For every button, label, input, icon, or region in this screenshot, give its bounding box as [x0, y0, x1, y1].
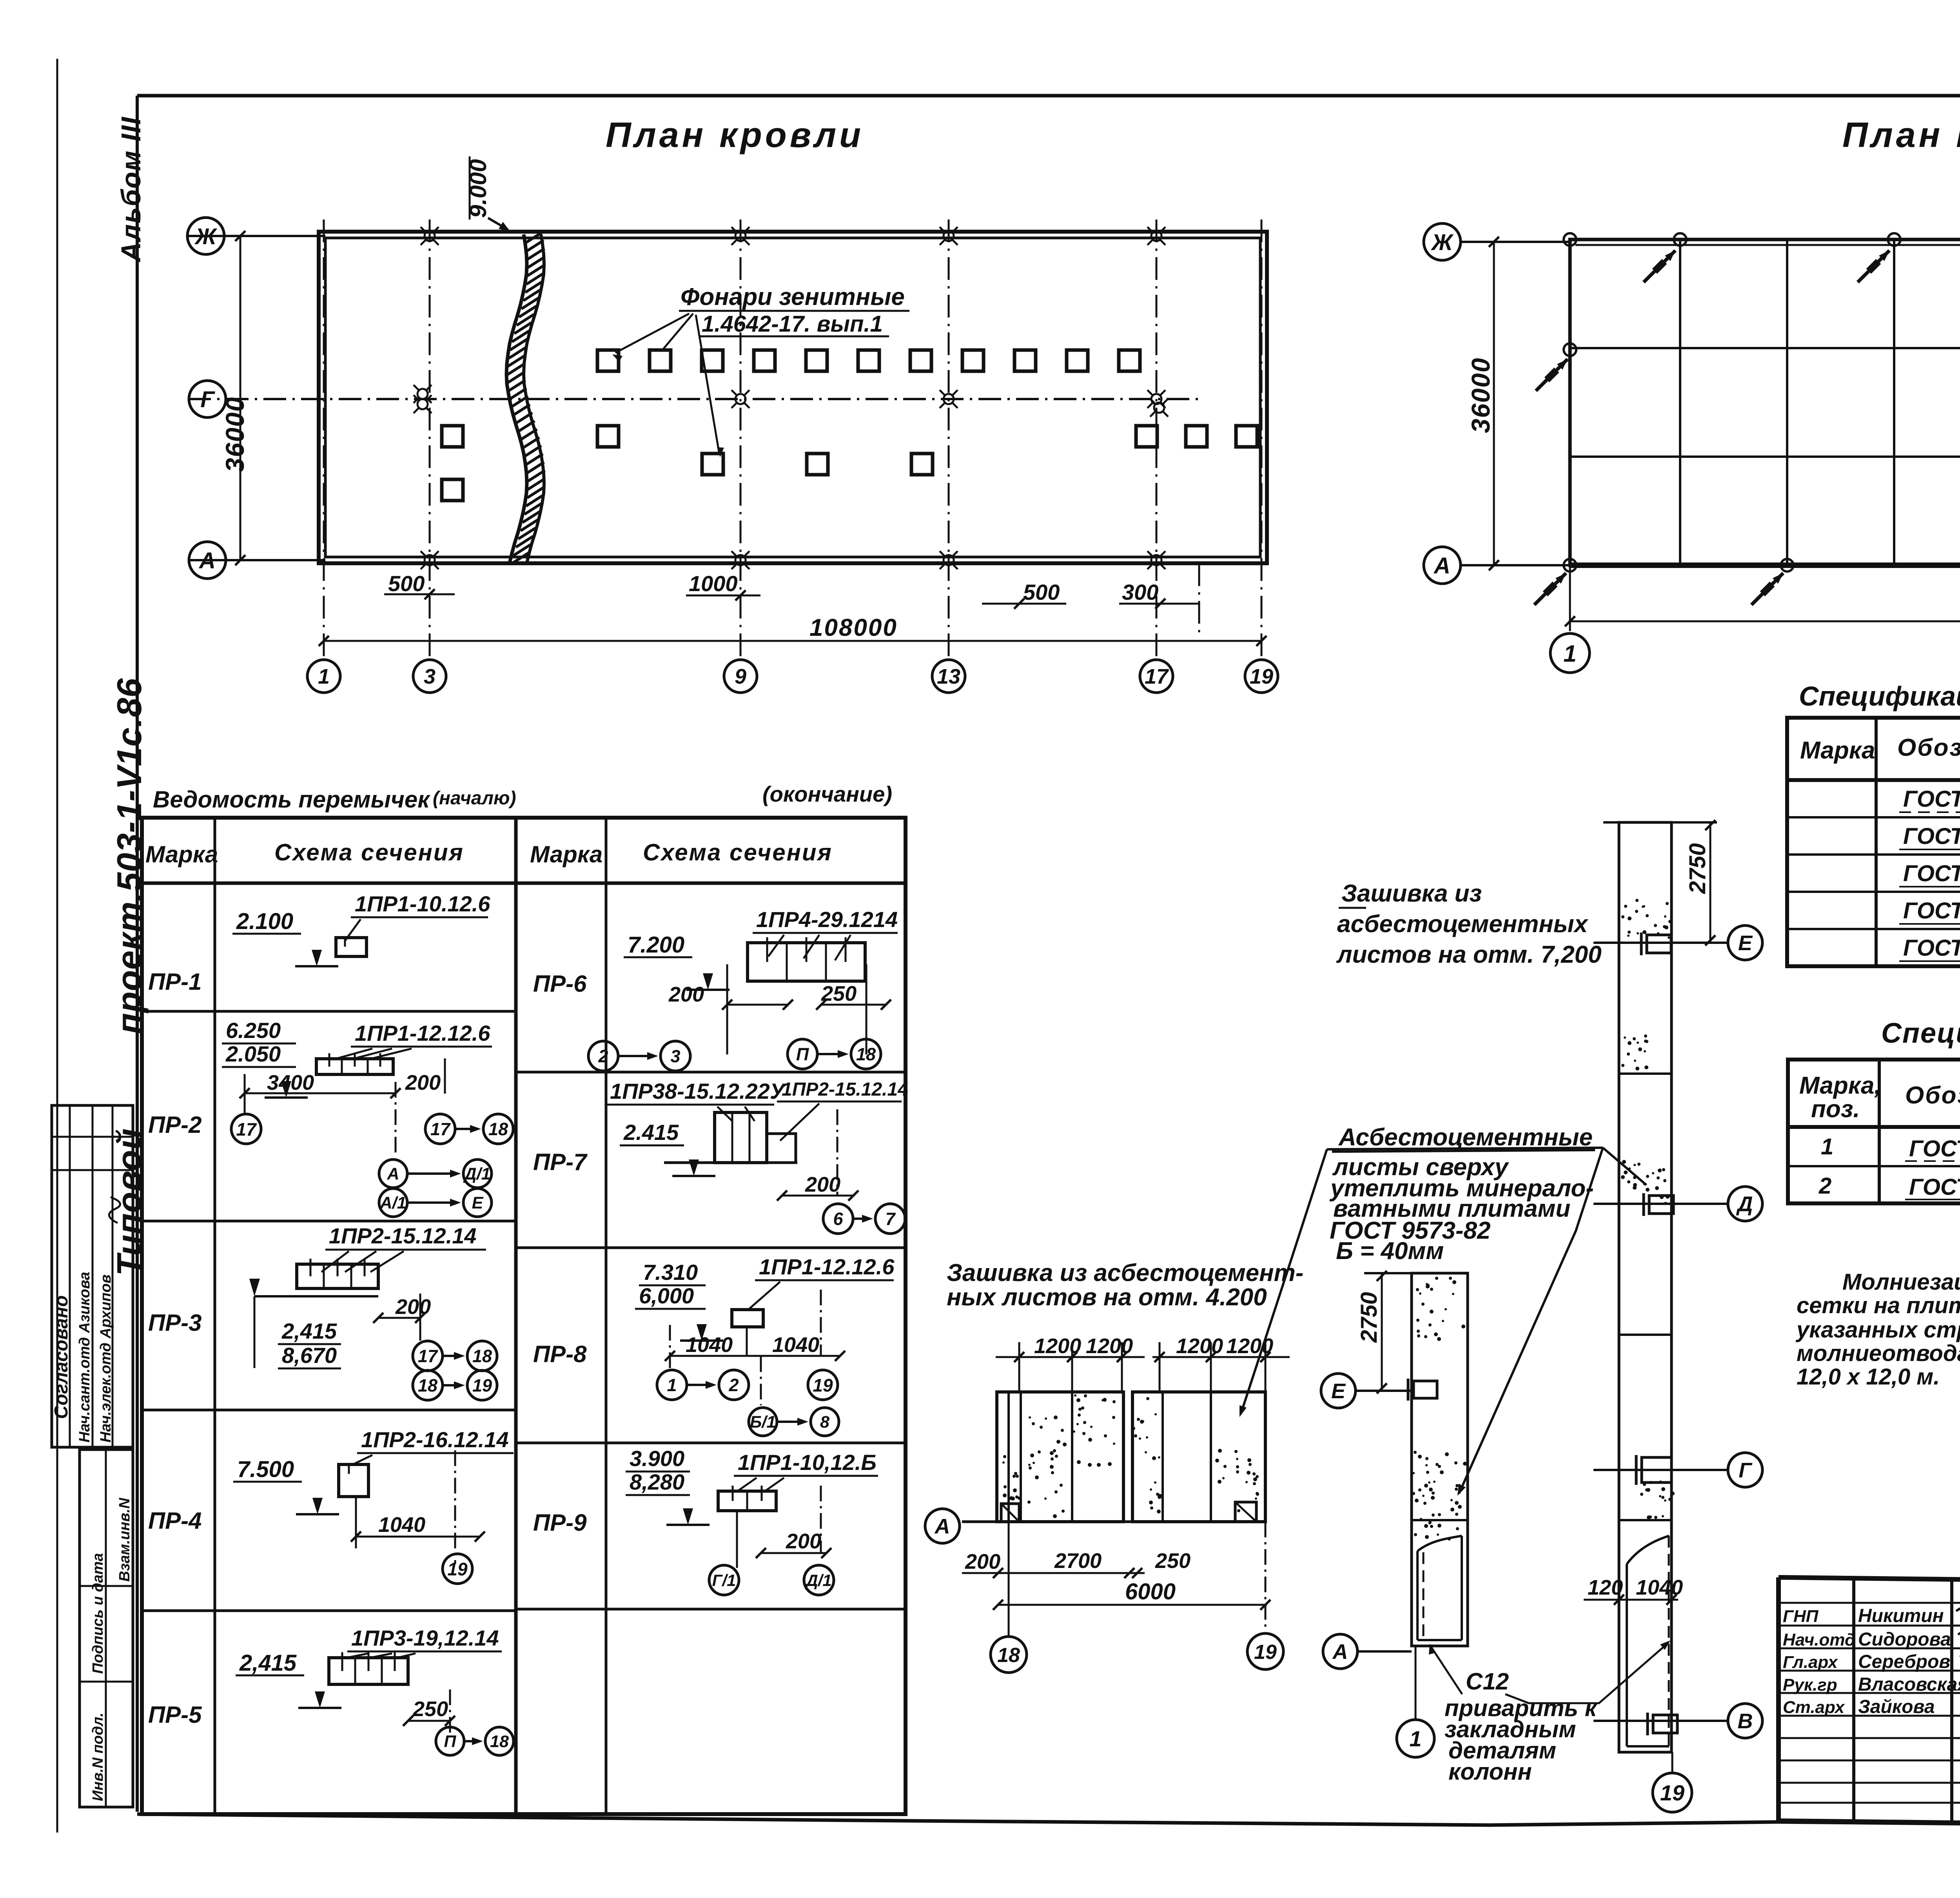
dim 6000: [998, 1604, 1267, 1606]
svg-text:250: 250: [1155, 1549, 1191, 1573]
axis D1 PR9: [804, 1565, 834, 1595]
speckle tall above G: [1640, 1481, 1675, 1519]
svg-text:2.050: 2.050: [225, 1042, 281, 1066]
svg-text:3400: 3400: [267, 1071, 314, 1094]
svg-text:1ПР3-19,12.14: 1ПР3-19,12.14: [351, 1626, 499, 1650]
skylight top 11: [1119, 350, 1140, 371]
roof outline inner: [325, 238, 1260, 557]
skylight top 2: [650, 350, 671, 371]
svg-text:1.4642-17. вып.1: 1.4642-17. вып.1: [702, 311, 883, 337]
svg-text:П: П: [796, 1044, 809, 1064]
lintel col divider 2: [514, 818, 518, 1814]
grid vertical 1: [1679, 240, 1681, 565]
dim 200-2700-250: [962, 1572, 1145, 1574]
svg-text:Серебров: Серебров: [1858, 1651, 1950, 1672]
skylight top 6: [858, 350, 879, 371]
svg-text:1ПР1-10,12.Б: 1ПР1-10,12.Б: [738, 1450, 877, 1475]
axis circle A lightning: [1424, 547, 1461, 584]
svg-text:1ПР4-29.1214: 1ПР4-29.1214: [756, 907, 898, 932]
offset dim 300 line 17: [1119, 603, 1200, 605]
axis circle 17: [1140, 660, 1173, 693]
svg-text:Обозначение: Обозначение: [1905, 1082, 1960, 1109]
beam PR8: [732, 1310, 763, 1327]
svg-text:сетки на плиты покрытия под: сетки на плиты покрытия под слой пароизо…: [1797, 1293, 1960, 1318]
skylight top 8: [962, 350, 984, 371]
svg-text:Е: Е: [472, 1194, 484, 1212]
lintel col divider 1: [214, 818, 216, 1814]
spec2 col: [1878, 1060, 1881, 1203]
svg-text:Г: Г: [1739, 1459, 1753, 1482]
svg-text:План молниезащиты: План молниезащиты: [1842, 116, 1960, 155]
svg-text:108000: 108000: [809, 614, 898, 641]
svg-text:1200: 1200: [1034, 1334, 1081, 1358]
svg-text:12,0 х 12,0 м.: 12,0 х 12,0 м.: [1797, 1364, 1940, 1390]
beam section: [297, 1264, 378, 1288]
svg-text:Спецификация металла на мол: Спецификация металла на молниезащиту: [1881, 1018, 1960, 1049]
lower strip box: [80, 1450, 133, 1807]
svg-text:13: 13: [937, 665, 960, 688]
axis 19 line: [1261, 220, 1263, 659]
tall strip segment line: [1619, 1334, 1671, 1336]
svg-text:120: 120: [1588, 1576, 1623, 1599]
svg-text:8,280: 8,280: [630, 1470, 684, 1494]
svg-text:ПР-7: ПР-7: [533, 1149, 588, 1175]
svg-text:1ПР1-10.12.6: 1ПР1-10.12.6: [355, 891, 490, 916]
svg-text:1ПР1-12.12.6: 1ПР1-12.12.6: [355, 1021, 490, 1045]
svg-text:Молниезащиту выполнить путем н: Молниезащиту выполнить путем наложения м…: [1842, 1269, 1960, 1295]
title block sig row: [1779, 1625, 1960, 1627]
skylight leader 2: [662, 314, 693, 351]
axis line В tall: [1593, 1720, 1727, 1722]
svg-text:Взам.инв.N: Взам.инв.N: [116, 1497, 133, 1582]
svg-text:200: 200: [965, 1550, 1000, 1573]
leader PR8: [749, 1282, 780, 1309]
svg-text:ГОСТ 2590-71: ГОСТ 2590-71: [1909, 1174, 1960, 1200]
axis 1 line: [323, 220, 325, 659]
hatched embed left: [1001, 1504, 1019, 1522]
svg-text:Е: Е: [1738, 931, 1753, 955]
svg-text:Зашивка из асбестоцемент-: Зашивка из асбестоцемент-: [947, 1259, 1303, 1287]
svg-text:А: А: [1433, 553, 1450, 579]
svg-text:17: 17: [430, 1119, 451, 1139]
axis 17 alone PR2: [231, 1114, 261, 1144]
middle strip outline: [1412, 1273, 1468, 1646]
lightning rod arrow left: [1536, 359, 1568, 391]
title block col: [1852, 1579, 1855, 1823]
svg-text:Б = 40мм: Б = 40мм: [1336, 1238, 1444, 1265]
dim 120 1040: [1584, 1599, 1678, 1601]
spec2 header line: [1788, 1125, 1960, 1129]
svg-text:ГОСТ 9573-82: ГОСТ 9573-82: [1903, 935, 1960, 961]
svg-text:1040: 1040: [686, 1333, 733, 1357]
axis line Е tall: [1593, 942, 1727, 944]
svg-text:ПР-3: ПР-3: [148, 1310, 202, 1336]
svg-text:Согласовано: Согласовано: [51, 1295, 72, 1419]
svg-text:18: 18: [472, 1346, 492, 1366]
title block bottom: [1779, 1821, 1960, 1830]
svg-text:А: А: [1332, 1640, 1348, 1664]
leader 9.000: [488, 218, 508, 230]
svg-text:Ж: Ж: [1430, 230, 1454, 255]
title block col: [1950, 1579, 1953, 1823]
grid vertical 3: [1893, 240, 1895, 565]
svg-text:36000: 36000: [220, 396, 249, 472]
axis 19 PR8: [808, 1370, 838, 1400]
lintel row line L: [142, 1609, 516, 1612]
skylight l0: [442, 479, 463, 501]
svg-text:7.200: 7.200: [628, 932, 684, 958]
svg-text:2,415: 2,415: [239, 1650, 297, 1676]
dim line 108000: [324, 640, 1261, 642]
svg-text:ГОСТ 18124 - 75*: ГОСТ 18124 - 75*: [1903, 861, 1960, 886]
tall strip lower panel: [1626, 1564, 1628, 1746]
grid vertical 2: [1786, 240, 1788, 565]
skylight top 10: [1067, 350, 1088, 371]
svg-text:Марка: Марка: [1800, 737, 1875, 764]
svg-text:План кровли: План кровли: [606, 116, 864, 155]
svg-text:Марка,: Марка,: [1799, 1072, 1881, 1099]
svg-text:1ПР38-15.12.22У: 1ПР38-15.12.22У: [610, 1079, 786, 1103]
title block sig row: [1779, 1802, 1960, 1804]
skylight top 9: [1014, 350, 1036, 371]
svg-text:17: 17: [236, 1119, 257, 1140]
svg-text:Подпись и дата: Подпись и дата: [90, 1553, 106, 1674]
svg-text:1040: 1040: [378, 1513, 425, 1537]
svg-text:8,670: 8,670: [282, 1343, 337, 1368]
C12 leader left: [1431, 1646, 1462, 1694]
speckle tall 2: [1621, 1034, 1648, 1071]
axis circle 3: [413, 660, 446, 693]
tall strip outline: [1619, 822, 1671, 1752]
callout right edge leader: [1459, 1148, 1603, 1493]
axis circle 13: [932, 660, 965, 693]
speckle right panel b: [1215, 1449, 1259, 1512]
frame bottom: [137, 1814, 1960, 1830]
axis 13 line: [948, 220, 950, 659]
margin signature scribble: [109, 1197, 120, 1223]
speckle left panel b: [1073, 1394, 1116, 1467]
title block sig row: [1779, 1670, 1960, 1672]
svg-text:ГОСТ 18124-75*: ГОСТ 18124-75*: [1903, 786, 1960, 812]
skylight l1: [702, 454, 723, 475]
skylight top 3: [702, 350, 723, 371]
spec2 row line: [1788, 1165, 1960, 1167]
svg-text:ГОСТ 18124 -75*: ГОСТ 18124 -75*: [1903, 824, 1960, 849]
beam section: [748, 943, 865, 981]
mid strip segment line: [1412, 1519, 1468, 1521]
svg-text:ПР-9: ПР-9: [533, 1510, 587, 1536]
panel left outer: [997, 1392, 1123, 1522]
dim line 108000 lightning: [1570, 621, 1960, 622]
svg-text:листов на отм. 7,200: листов на отм. 7,200: [1336, 941, 1602, 968]
axis A stub left: [188, 559, 325, 561]
svg-text:7.500: 7.500: [237, 1457, 294, 1482]
svg-text:18: 18: [856, 1044, 876, 1064]
svg-text:П: П: [444, 1732, 457, 1751]
svg-text:36000: 36000: [1466, 357, 1495, 433]
title block sig row: [1779, 1782, 1960, 1784]
svg-text:2,415: 2,415: [281, 1319, 337, 1343]
lintel row line R: [516, 1442, 906, 1444]
mid strip lower panel: [1416, 1551, 1419, 1640]
svg-text:2: 2: [1818, 1173, 1831, 1199]
svg-text:Зайкова: Зайкова: [1858, 1697, 1935, 1717]
svg-text:(началю): (началю): [433, 788, 516, 809]
svg-text:19: 19: [1660, 1780, 1684, 1805]
svg-text:19: 19: [472, 1375, 492, 1395]
svg-text:Д: Д: [1736, 1192, 1753, 1216]
svg-text:1: 1: [1821, 1134, 1833, 1159]
svg-text:Нач.элек.отд Архипов: Нач.элек.отд Архипов: [98, 1274, 114, 1443]
svg-text:1000: 1000: [689, 571, 738, 596]
svg-text:поз.: поз.: [1811, 1096, 1860, 1123]
C12 leader right: [1505, 1642, 1669, 1703]
svg-text:6,000: 6,000: [639, 1283, 694, 1308]
svg-text:6.250: 6.250: [226, 1018, 281, 1043]
skylight leader 1: [615, 314, 689, 353]
beam section: [329, 1658, 408, 1684]
callout leader to strip: [1603, 1148, 1646, 1185]
svg-text:Инв.N подл.: Инв.N подл.: [90, 1713, 106, 1801]
svg-text:2700: 2700: [1054, 1549, 1102, 1573]
axis A line detail: [962, 1521, 1265, 1523]
lintel col divider 3: [605, 818, 608, 1814]
svg-text:18: 18: [490, 1732, 509, 1751]
svg-text:Альбом III: Альбом III: [116, 116, 146, 263]
skylight m4: [1186, 426, 1207, 447]
svg-text:300: 300: [1122, 580, 1158, 604]
svg-text:1ПР2-16.12.14: 1ПР2-16.12.14: [361, 1427, 509, 1452]
axis circle 1 lightning: [1550, 633, 1590, 673]
axis line Г tall: [1593, 1469, 1727, 1471]
dashdot PR2: [395, 1082, 397, 1156]
svg-text:200: 200: [668, 983, 704, 1006]
axis 19 PR4: [443, 1554, 472, 1584]
spec1 row line: [1787, 891, 1960, 893]
break line hatched band: [506, 234, 527, 563]
signature scribble 1: [1956, 1604, 1960, 1615]
svg-text:17: 17: [418, 1346, 438, 1366]
svg-text:19: 19: [1250, 665, 1273, 688]
axis A circle mid: [1323, 1634, 1357, 1669]
dim line 36000 left: [240, 236, 241, 560]
svg-text:Спецификация материалов асбе: Спецификация материалов асбестоцементные…: [1799, 681, 1960, 711]
svg-text:Ст.арх: Ст.арх: [1783, 1698, 1845, 1717]
svg-text:ГНП: ГНП: [1783, 1607, 1819, 1626]
svg-text:1200: 1200: [1226, 1334, 1273, 1358]
svg-text:А/1: А/1: [380, 1194, 407, 1212]
svg-text:Зашивка из: Зашивка из: [1341, 880, 1482, 907]
svg-text:18: 18: [488, 1119, 508, 1139]
skylight l2: [807, 454, 828, 475]
svg-text:Сидорова: Сидорова: [1858, 1629, 1951, 1650]
svg-text:Ж: Ж: [194, 224, 218, 249]
axis G dash-dot: [188, 398, 1199, 400]
svg-text:17: 17: [1145, 665, 1169, 688]
beam PR4: [339, 1464, 368, 1497]
axis Е circle tall: [1728, 925, 1762, 960]
skylight leader 3: [696, 315, 719, 454]
beam section: [718, 1491, 776, 1511]
speckle left panel a: [1027, 1415, 1067, 1518]
svg-text:3: 3: [424, 665, 436, 688]
svg-text:2: 2: [598, 1046, 608, 1066]
axis circle 1: [307, 660, 340, 693]
svg-text:ГОСТ 2590-71: ГОСТ 2590-71: [1909, 1136, 1960, 1161]
svg-text:200: 200: [395, 1295, 431, 1319]
svg-text:молниеотводами. Размеры ячее: молниеотводами. Размеры ячеек молниеприе…: [1797, 1341, 1960, 1366]
svg-text:Д/1: Д/1: [463, 1165, 491, 1183]
soglasovano box: [52, 1105, 133, 1447]
skylight l3: [911, 454, 933, 475]
lintel row line L: [142, 1010, 516, 1013]
axis circle Zh: [187, 218, 224, 254]
skylight m5: [1236, 426, 1257, 447]
svg-text:1040: 1040: [772, 1333, 819, 1357]
beam section: [316, 1059, 393, 1074]
svg-text:9: 9: [735, 665, 746, 688]
svg-text:500: 500: [388, 571, 425, 596]
svg-text:Нач.отд: Нач.отд: [1783, 1630, 1855, 1649]
axis G1 PR9: [709, 1565, 739, 1595]
svg-text:18: 18: [418, 1375, 437, 1395]
svg-text:1: 1: [1409, 1726, 1421, 1751]
svg-text:18: 18: [997, 1644, 1020, 1667]
offset dash line near 17: [1198, 563, 1200, 635]
svg-text:асбестоцементных: асбестоцементных: [1337, 911, 1589, 938]
title block sig row: [1779, 1602, 1960, 1604]
offset dim 500 line: [384, 593, 455, 595]
svg-text:1: 1: [1563, 641, 1576, 667]
svg-text:Власовская: Власовская: [1858, 1674, 1960, 1695]
tall strip segment line: [1619, 1519, 1671, 1521]
svg-text:1: 1: [318, 665, 330, 688]
lightning grid bottom thick: [1570, 563, 1960, 568]
axis 3 line: [429, 220, 431, 659]
axis circle G: [189, 381, 226, 417]
grid top inner line: [1575, 244, 1960, 246]
svg-text:Д/1: Д/1: [805, 1571, 831, 1590]
svg-text:2.100: 2.100: [236, 909, 293, 934]
svg-text:3.900: 3.900: [630, 1446, 684, 1471]
svg-text:колонн: колонн: [1448, 1758, 1532, 1785]
lightning grid outline: [1570, 240, 1960, 565]
leader PR1: [345, 919, 361, 941]
axis circle 19: [1245, 660, 1278, 693]
svg-text:1040: 1040: [1636, 1576, 1683, 1599]
lintel row line R: [516, 1071, 906, 1074]
frame left: [136, 96, 139, 1812]
beam PR7 tall: [715, 1112, 767, 1163]
svg-text:200: 200: [405, 1071, 441, 1094]
svg-text:указанных стрелками, молниеп: указанных стрелками, молниеприемную сетк…: [1795, 1317, 1960, 1343]
axis A circle detail: [925, 1509, 960, 1543]
svg-text:200: 200: [786, 1530, 821, 1553]
PR3 base line: [254, 1295, 378, 1297]
axis circle Zh lightning: [1424, 223, 1461, 260]
dim line 36000 lightning: [1493, 242, 1495, 565]
svg-text:Марка: Марка: [530, 841, 603, 867]
svg-text:С12: С12: [1466, 1668, 1509, 1695]
dim line 1200 right: [1152, 1356, 1290, 1358]
svg-text:В: В: [1738, 1709, 1753, 1733]
beam PR7 step: [767, 1134, 796, 1163]
lintel row line L: [142, 1220, 516, 1223]
svg-text:1ПР2-15.12.14: 1ПР2-15.12.14: [329, 1223, 477, 1248]
svg-text:3: 3: [670, 1046, 680, 1066]
skylight m3: [1136, 426, 1157, 447]
svg-text:ПР-4: ПР-4: [148, 1508, 202, 1534]
axis 1 ext lightning: [1569, 565, 1571, 631]
lightning rod arrows top: [1644, 250, 1675, 282]
title block sig row: [1779, 1760, 1960, 1762]
svg-text:Фонари зенитные: Фонари зенитные: [681, 283, 905, 310]
spec1 col: [1875, 718, 1878, 966]
svg-text:Ведомость перемычек: Ведомость перемычек: [153, 786, 430, 813]
spec1 row line: [1787, 928, 1960, 930]
svg-text:19: 19: [813, 1375, 833, 1395]
axis E circle mid: [1321, 1374, 1356, 1408]
speckle right panel a: [1132, 1397, 1162, 1513]
grid horizontal 1: [1570, 347, 1960, 349]
spec1 row line: [1787, 853, 1960, 856]
svg-text:ПР-1: ПР-1: [148, 969, 202, 995]
lightning rod arrows bottom: [1534, 573, 1566, 605]
axis circle 9: [724, 660, 757, 693]
panel right outer: [1132, 1392, 1265, 1522]
spec2 outline: [1788, 1060, 1960, 1203]
offset dim 1000 line: [686, 595, 760, 597]
roof outline outer: [319, 232, 1267, 563]
title block sig row: [1779, 1648, 1960, 1649]
dim 2750 line mid: [1381, 1273, 1383, 1391]
svg-text:А: А: [198, 548, 216, 573]
skylight m2: [597, 426, 619, 447]
svg-text:Б/1: Б/1: [750, 1413, 776, 1432]
axis 18 circle detail: [991, 1637, 1027, 1673]
svg-text:2: 2: [728, 1375, 739, 1395]
svg-text:Г: Г: [200, 387, 215, 412]
speckle tall above D: [1621, 1160, 1670, 1205]
svg-text:Нач.сант.отд Азикова: Нач.сант.отд Азикова: [76, 1272, 93, 1443]
spec1 row line: [1787, 816, 1960, 818]
svg-text:Никитин: Никитин: [1858, 1606, 1944, 1626]
svg-text:1200: 1200: [1176, 1334, 1223, 1358]
axis 17 line: [1156, 220, 1158, 659]
dim 2750 tall: [1710, 822, 1711, 943]
svg-text:Асбестоцементные: Асбестоцементные: [1338, 1124, 1593, 1151]
title block left: [1776, 1577, 1781, 1821]
axis 19 circle detail: [1247, 1633, 1283, 1669]
dashdot PR4: [454, 1450, 456, 1564]
speckle mid top: [1416, 1277, 1465, 1341]
callout left edge leader: [1241, 1149, 1327, 1413]
speckle left small: [1002, 1455, 1021, 1501]
outer left margin line: [56, 59, 58, 1833]
svg-text:проект.503-1-V1с.86: проект.503-1-V1с.86: [110, 678, 149, 1034]
svg-text:1200: 1200: [1086, 1334, 1133, 1358]
axis A stub right plan: [1461, 564, 1570, 566]
svg-text:Схема сечения: Схема сечения: [643, 839, 833, 866]
skylight top 5: [806, 350, 827, 371]
svg-text:ПР-8: ПР-8: [533, 1341, 587, 1367]
svg-text:А: А: [934, 1515, 950, 1538]
skylight m1: [442, 426, 463, 447]
beam PR1: [336, 938, 367, 956]
tall strip segment line: [1619, 1072, 1671, 1075]
title block sig row: [1779, 1692, 1960, 1694]
svg-text:19: 19: [1254, 1641, 1277, 1664]
